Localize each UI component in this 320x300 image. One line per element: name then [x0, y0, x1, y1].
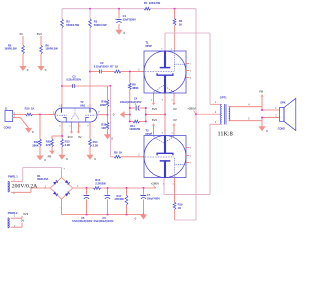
wire R17 leads: [126, 188, 128, 215]
net label 6V3 below T1: [152, 107, 157, 111]
wire C7 leads: [143, 188, 145, 215]
resistor R6: [40, 43, 59, 54]
wire OPT pin 2 center tap: [196, 113, 221, 115]
wire R21 to FB flag: [51, 147, 53, 151]
svg-text:T2: T2: [80, 100, 84, 104]
ground flag 0 below R13: [58, 155, 68, 161]
pin 3 label OPT1: [215, 122, 217, 124]
svg-text:CON2: CON2: [278, 126, 286, 130]
diode D1d: [65, 192, 70, 197]
svg-text:R4: R4: [179, 19, 183, 23]
pin 1 label CON2: [14, 113, 16, 115]
pin labels T3 bottom: [163, 184, 175, 186]
svg-text:+280V: +280V: [151, 182, 160, 186]
triode T2 6N1 (driver/phase splitter): [55, 100, 97, 122]
svg-text:R9: R9: [132, 82, 136, 86]
resistor R5: [4, 43, 24, 54]
svg-text:R2: R2: [66, 19, 70, 23]
label 200V/0.2A: [12, 184, 38, 190]
svg-text:R16: R16: [101, 100, 106, 104]
pin labels PWR1.1: [13, 179, 15, 195]
net label 6V3 above R6: [37, 32, 42, 36]
wire T1 heater stub a: [152, 93, 155, 105]
resistor R3: [89, 19, 107, 28]
wire to R8 (bottom grid drive): [111, 86, 115, 157]
wire T2 cathode2: [89, 122, 91, 155]
resistor R13: [61, 139, 71, 147]
wire +280V bus: [73, 187, 156, 189]
svg-text:OPT1: OPT1: [220, 95, 227, 99]
svg-text:2.2K: 2.2K: [65, 143, 71, 147]
resistor R12: [32, 139, 41, 147]
net label 0V above R5: [20, 32, 24, 36]
resistor R11 cathode bias: [129, 120, 140, 131]
wire OPT secondary top: [229, 106, 262, 108]
svg-text:0V: 0V: [20, 32, 24, 36]
svg-text:22uF/350V: 22uF/350V: [123, 18, 137, 22]
power flag +280V (right): [187, 107, 196, 115]
pin 2 label OPT1: [215, 112, 217, 114]
svg-text:200V/0.2A: 200V/0.2A: [12, 184, 38, 190]
wire R6: [40, 36, 42, 66]
pin 2 label T3 grid: [138, 155, 140, 157]
capacitor C2: [94, 61, 119, 73]
svg-text:11K:8: 11K:8: [218, 131, 233, 138]
wire C6 leads: [107, 188, 109, 215]
wire bridge minus to ground bus: [61, 199, 63, 214]
pentode T3 6P1P (lower output tube): [144, 128, 186, 177]
wire R5: [22, 36, 24, 66]
svg-text:100uF/450V: 100uF/450V: [147, 197, 161, 200]
svg-text:T3: T3: [145, 128, 149, 132]
svg-text:PWR1.2: PWR1.2: [8, 211, 18, 215]
svg-text:+280V: +280V: [187, 107, 196, 111]
svg-text:2.2K: 2.2K: [93, 144, 99, 148]
node cathode1 junction: [61, 135, 63, 137]
svg-text:500K0.5W: 500K0.5W: [66, 23, 79, 27]
svg-text:6V3: 6V3: [37, 32, 42, 36]
svg-text:DBR-25A: DBR-25A: [37, 177, 48, 181]
wire RC loop to ground flag: [124, 114, 129, 116]
net label 0V under T2: [78, 135, 82, 139]
svg-text:CON2: CON2: [4, 126, 12, 130]
pin 2 label CON2: [14, 117, 16, 119]
wire R4 branch: [174, 9, 176, 51]
svg-text:47uF(220uF)/400V: 47uF(220uF)/400V: [72, 220, 93, 223]
wire T3 heater stub a: [152, 123, 155, 135]
resistor R18: [101, 122, 109, 130]
connector CON2: [4, 108, 13, 130]
resistor R7: [114, 70, 121, 73]
svg-text:R21: R21: [46, 140, 51, 144]
svg-text:R14: R14: [93, 140, 98, 144]
node junction R4 on rail: [174, 8, 176, 10]
svg-text:-: -: [60, 205, 61, 209]
wire +280V right vertical: [195, 9, 197, 220]
node secondary bottom junction: [261, 116, 263, 118]
diode D1b: [65, 180, 70, 185]
svg-text:0V: 0V: [173, 107, 177, 111]
wire B plate1 coupling: [62, 85, 111, 87]
pin labels T3 top: [151, 132, 174, 134]
wire OPT secondary bottom: [229, 120, 262, 122]
wire FB column: [262, 96, 280, 110]
svg-text:FB: FB: [48, 154, 52, 158]
svg-text:R10 1K: R10 1K: [25, 107, 35, 111]
transformer OPT1: [220, 95, 230, 124]
diode D1c: [53, 191, 58, 196]
resistor R14: [89, 139, 99, 148]
svg-text:100uF(220uF)/25V: 100uF(220uF)/25V: [120, 100, 142, 104]
wire R2 branch: [61, 9, 63, 108]
bridge rectifier D1 frame: [37, 174, 72, 199]
wire R10 to T2 grid1: [33, 113, 56, 115]
svg-text:FB: FB: [259, 89, 263, 93]
svg-text:0.22uF/250V R7 1K: 0.22uF/250V R7 1K: [94, 65, 119, 69]
wire R16 branch: [107, 86, 109, 100]
pin labels T1 bottom: [151, 99, 174, 101]
ground flag 0 below R18: [104, 134, 114, 140]
svg-text:C3: C3: [72, 74, 76, 78]
svg-text:100R0.5W: 100R0.5W: [45, 47, 58, 51]
svg-text:R15: R15: [95, 178, 100, 182]
svg-text:1K: 1K: [179, 23, 182, 27]
ground flag 0 at bus: [135, 215, 148, 221]
pentode T1 6P1P (upper output tube): [144, 40, 186, 93]
wire R8 to T3 grid: [121, 156, 144, 158]
wire T2 plate2 pin stub: [87, 104, 90, 108]
power flag +280V (bus): [151, 182, 160, 189]
node wire B corner junction: [110, 85, 112, 87]
wire PWR1.2 pin2 0V: [11, 223, 22, 228]
pin labels speaker: [275, 108, 277, 117]
node junction R3 on rail: [89, 8, 91, 10]
wire R16 to grid2 node: [107, 107, 109, 115]
diode D1a: [53, 180, 58, 185]
wire T1 heater stub b: [172, 93, 175, 105]
svg-text:380K: 380K: [132, 86, 138, 90]
resistor R15: [94, 178, 107, 189]
wire PWR1.2 pin1 6V3: [11, 216, 22, 218]
svg-text:2.2R/2W: 2.2R/2W: [95, 182, 106, 186]
node junction C1 on rail: [118, 8, 120, 10]
svg-text:100R0.5W: 100R0.5W: [4, 47, 17, 51]
wire cathode1 to R21: [52, 136, 62, 139]
svg-text:PWR1.1: PWR1.1: [8, 174, 18, 178]
wire cathode to RC network: [146, 114, 165, 116]
svg-text:R12: R12: [34, 140, 39, 144]
net label 6V3 under T2: [68, 135, 73, 139]
wire R18 branch: [107, 115, 109, 123]
wire R18 to ground: [107, 129, 109, 134]
svg-text:47K/2W: 47K/2W: [114, 197, 124, 201]
wire RC loop frame: [130, 108, 146, 122]
wire OPT pin 3 to T3 plate: [164, 124, 221, 194]
svg-text:10K: 10K: [101, 126, 106, 130]
wire R12 branch: [39, 114, 41, 155]
net label 0V above T3: [173, 118, 177, 122]
svg-text:R1 22K0.5W: R1 22K0.5W: [144, 1, 161, 5]
ground flag 0 below CON2: [25, 128, 34, 134]
svg-text:1K: 1K: [178, 206, 181, 210]
wire B+ top rail: [62, 8, 196, 10]
svg-text:380K: 380K: [32, 143, 38, 147]
svg-text:C1: C1: [123, 14, 127, 18]
svg-text:C2: C2: [100, 61, 104, 65]
ground flag 0 below C1: [115, 30, 125, 35]
svg-text:T1: T1: [145, 40, 149, 44]
resistor R10: [25, 107, 35, 116]
pin 2 label T1 grid: [138, 70, 140, 72]
svg-text:0V: 0V: [21, 219, 25, 223]
node ground bus junctions: [86, 214, 145, 216]
wire T2 heater pin b: [77, 122, 80, 134]
capacitor C1: [115, 14, 136, 23]
node +280V to OPT junction: [195, 113, 197, 115]
speaker CON1: [278, 98, 296, 130]
pin 7 label T2 grid2: [98, 112, 100, 114]
resistor R8: [114, 150, 122, 158]
resistor R2: [61, 19, 80, 28]
capacitor C4: [120, 97, 142, 111]
ground flag 0 below R6: [37, 66, 46, 72]
transformer winding PWR1.1: [8, 174, 18, 192]
ground flag 0 below R14: [86, 155, 96, 161]
svg-text:R3: R3: [94, 19, 98, 23]
ground flag 0 below R12: [36, 156, 46, 162]
wire PWR1.1 pin1 to bridge: [11, 168, 62, 182]
pin stubs T1 right: [186, 64, 192, 80]
svg-text:R8 1K: R8 1K: [114, 150, 122, 154]
ground flag 0 left (cathode return): [113, 111, 125, 118]
node RC loop corners: [129, 107, 147, 122]
wire T2 heater pin a: [70, 122, 73, 134]
svg-text:R19: R19: [178, 203, 183, 207]
node cathode junction: [164, 114, 166, 116]
resistor R17: [114, 194, 127, 205]
label impedance 11K:8: [218, 131, 233, 138]
pin labels PWR1.2: [14, 215, 16, 228]
svg-text:100R/2W: 100R/2W: [129, 127, 140, 131]
node bus junctions: [86, 187, 145, 189]
node plate2 junction: [89, 71, 91, 73]
resistor R21: [46, 139, 54, 147]
wire C1 to ground: [118, 24, 120, 30]
capacitor C3: [66, 74, 81, 88]
svg-text:6V3: 6V3: [152, 118, 157, 122]
pin 2 label T2 grid1: [53, 112, 55, 114]
wire PWR1.1 pin2 to bridge: [11, 188, 51, 192]
ground flag 0 below R5: [19, 66, 28, 72]
wire T2 cathode1: [61, 122, 63, 155]
wire T3 heater stub b: [172, 123, 175, 135]
net label 6V3 at PWR1.2: [23, 212, 28, 216]
net flag FB (feedback to cathode): [48, 151, 55, 159]
svg-text:0V: 0V: [78, 135, 82, 139]
svg-text:6V3: 6V3: [152, 107, 157, 111]
svg-text:0.22uF/250V: 0.22uF/250V: [66, 78, 81, 82]
wire T2 plate1 pin stub: [59, 104, 61, 108]
pin stubs T3 right: [186, 148, 192, 165]
resistor R19: [173, 202, 183, 210]
node secondary top junction: [261, 109, 263, 111]
wire T3 screen branch: [175, 178, 197, 221]
pin 1 label OPT1: [215, 102, 217, 104]
wire T1 plate to OPT pin 1: [165, 33, 221, 104]
wire C5 leads: [86, 188, 88, 215]
svg-text:500K0.5W: 500K0.5W: [94, 23, 107, 27]
svg-text:6V3: 6V3: [23, 212, 28, 216]
pin labels T2 bottom: [59, 125, 89, 127]
wire ground bus: [62, 214, 144, 216]
transformer winding PWR1.2: [8, 211, 18, 228]
svg-text:6N1: 6N1: [80, 104, 85, 108]
node plate1 junction: [61, 85, 63, 87]
node T2 grid2 junction: [107, 114, 109, 116]
svg-text:R13: R13: [65, 140, 70, 144]
ground flag 0 at speaker: [258, 126, 268, 133]
net flag FB at secondary: [259, 89, 263, 96]
wire C1 branch: [118, 9, 120, 19]
capacitor C6: [93, 194, 114, 223]
resistor R16: [100, 100, 109, 108]
wire speaker pin2 column: [262, 117, 280, 126]
svg-text:6V3: 6V3: [68, 135, 73, 139]
resistor R1 (in B+ rail): [144, 1, 161, 10]
svg-text:R18: R18: [101, 122, 106, 126]
svg-text:27K: 27K: [46, 143, 51, 147]
resistor R4: [173, 18, 183, 26]
svg-text:SPK: SPK: [280, 100, 285, 104]
resistor R9 grid leak: [128, 72, 138, 109]
node T2 grid1 junction: [39, 113, 41, 115]
capacitor C5: [72, 194, 93, 223]
svg-text:180K: 180K: [100, 103, 106, 107]
net label 6V3 above T3: [152, 118, 157, 122]
wire shared cathode line: [164, 93, 166, 136]
capacitor C7: [139, 194, 160, 200]
wire R3 branch: [89, 9, 91, 108]
pin labels T1 top: [161, 49, 173, 51]
polarity labels D1: [45, 168, 80, 209]
svg-text:47uF(220uF)/400V: 47uF(220uF)/400V: [93, 220, 114, 223]
pin 5 label OPT1: [248, 119, 250, 121]
wire T2 pin7 to divider: [97, 114, 108, 116]
net label 0V below T1: [173, 107, 177, 111]
net label 0V at PWR1.2: [21, 219, 25, 223]
wire CON2 pin2 to ground: [13, 118, 29, 128]
wire A plate2 coupling: [90, 71, 144, 73]
node T1 grid junction: [129, 71, 131, 73]
pin 4 label OPT1: [248, 105, 250, 107]
svg-text:6P1P: 6P1P: [145, 44, 152, 48]
svg-text:0V: 0V: [173, 118, 177, 122]
wire CON2 pin1 to R10: [13, 113, 26, 115]
